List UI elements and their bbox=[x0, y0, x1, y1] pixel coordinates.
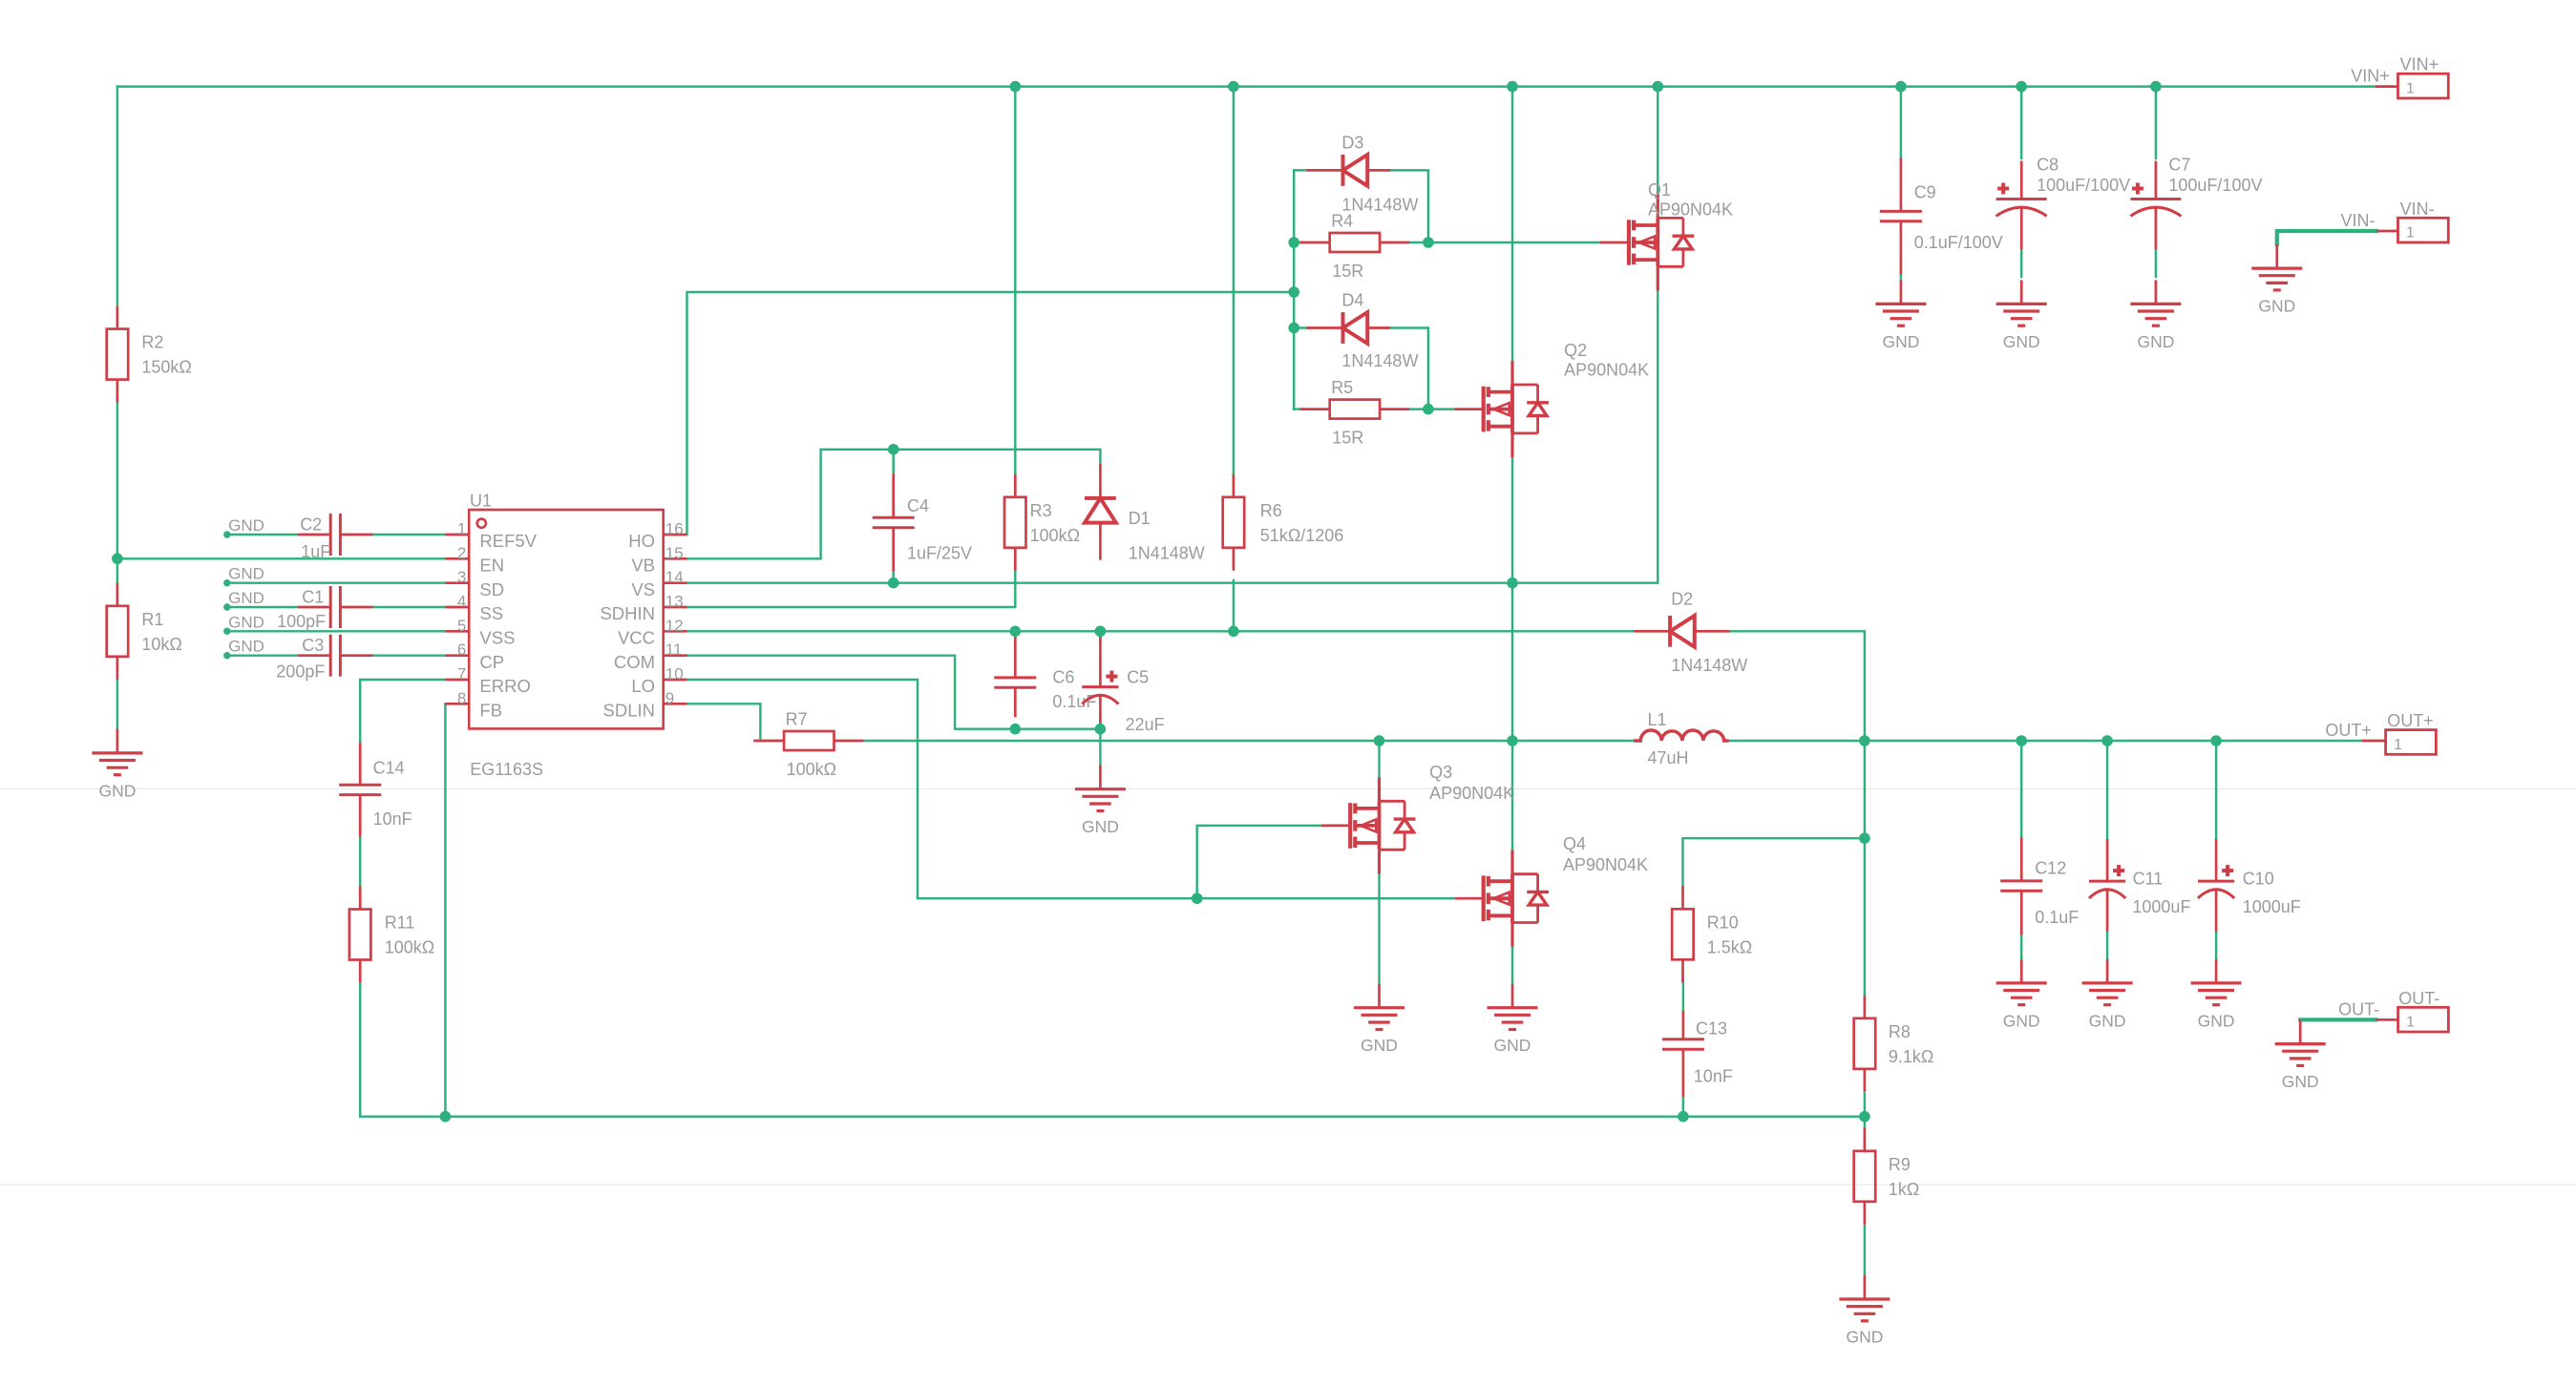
svg-text:GND: GND bbox=[98, 781, 136, 800]
wire D3 D4 left rail bbox=[1293, 170, 1295, 409]
capacitor C12 bbox=[2000, 837, 2042, 934]
svg-text:VCC: VCC bbox=[618, 628, 655, 648]
wire C14 to R11 bbox=[359, 837, 361, 888]
wire VIN- wire bbox=[2277, 231, 2376, 244]
wire R6 top drop bbox=[1233, 87, 1235, 475]
wire C1 to pin4 bbox=[373, 606, 446, 608]
U1 pin 2 (EN) bbox=[445, 557, 469, 560]
wire C9 stem bbox=[1900, 87, 1902, 158]
svg-text:C14: C14 bbox=[373, 759, 405, 778]
junction COM C5 bbox=[1095, 724, 1107, 735]
svg-text:VIN-: VIN- bbox=[2400, 199, 2435, 219]
wire HO route bbox=[687, 292, 1295, 535]
svg-text:1: 1 bbox=[2406, 225, 2415, 241]
svg-text:1000uF: 1000uF bbox=[2132, 897, 2190, 916]
capacitor C9 bbox=[1880, 157, 1922, 274]
svg-text:GND: GND bbox=[2198, 1011, 2235, 1030]
junction OUT+ C11 bbox=[2101, 735, 2113, 746]
ground GND below OUT- bbox=[2275, 1020, 2326, 1066]
svg-text:C12: C12 bbox=[2035, 858, 2066, 877]
svg-text:OUT-: OUT- bbox=[2398, 989, 2439, 1008]
svg-text:1N4148W: 1N4148W bbox=[1341, 196, 1418, 215]
wire OUT- wire bbox=[2300, 1018, 2375, 1021]
junction VCC C6 bbox=[1010, 626, 1022, 638]
wire R10 top link bbox=[1683, 838, 1865, 888]
svg-text:GND: GND bbox=[2258, 297, 2295, 316]
wire Q3 drain drop bbox=[1378, 741, 1380, 777]
svg-text:GND: GND bbox=[1882, 332, 1919, 351]
svg-text:GND: GND bbox=[2137, 332, 2174, 351]
svg-text:Q3: Q3 bbox=[1429, 763, 1452, 782]
svg-text:REF5V: REF5V bbox=[479, 531, 537, 551]
capacitor C2 bbox=[298, 514, 372, 556]
svg-text:GND: GND bbox=[228, 565, 264, 583]
junction FB rail bbox=[440, 1111, 452, 1123]
svg-text:4: 4 bbox=[457, 593, 466, 611]
U1 pin 7 (ERRO) bbox=[445, 679, 469, 682]
junction OUT+ D2 bbox=[1859, 735, 1870, 746]
svg-text:0.1uF: 0.1uF bbox=[2035, 908, 2079, 927]
svg-text:C3: C3 bbox=[302, 636, 324, 655]
svg-text:GND: GND bbox=[2003, 1011, 2040, 1030]
capacitor C6 bbox=[994, 631, 1036, 717]
svg-text:GND: GND bbox=[1361, 1036, 1398, 1055]
U1 pin 4 (SS) bbox=[445, 606, 469, 609]
wire end dot GND row 2 bbox=[223, 579, 230, 586]
wire FB drop bbox=[444, 703, 446, 1116]
wire D4 to R5 node bbox=[1390, 328, 1428, 409]
capacitor C3 bbox=[298, 635, 372, 677]
svg-text:D3: D3 bbox=[1341, 134, 1363, 153]
svg-text:11: 11 bbox=[665, 640, 683, 659]
svg-text:OUT+: OUT+ bbox=[2387, 711, 2434, 730]
svg-text:GND: GND bbox=[2003, 332, 2040, 351]
svg-text:C7: C7 bbox=[2168, 155, 2190, 174]
wire GND stub to pin5 bbox=[227, 630, 446, 632]
capacitor C8 bbox=[1996, 161, 2047, 250]
wire C7 gnd link bbox=[2155, 250, 2157, 277]
svg-text:GND: GND bbox=[2282, 1072, 2319, 1091]
svg-text:1.5kΩ: 1.5kΩ bbox=[1707, 937, 1752, 956]
svg-text:R9: R9 bbox=[1889, 1155, 1911, 1174]
resistor R9 bbox=[1854, 1128, 1876, 1225]
wire C5 gnd stem bbox=[1099, 729, 1101, 766]
wire R8 R9 link bbox=[1864, 1093, 1866, 1151]
wire Q4 source to GND bbox=[1511, 947, 1513, 985]
svg-text:R8: R8 bbox=[1889, 1022, 1911, 1041]
svg-text:100uF/100V: 100uF/100V bbox=[2168, 176, 2262, 195]
svg-text:VIN+: VIN+ bbox=[2400, 55, 2439, 74]
svg-text:C2: C2 bbox=[300, 515, 322, 535]
svg-text:14: 14 bbox=[665, 568, 684, 586]
wire GND stub to pin3 bbox=[227, 581, 446, 583]
svg-text:10nF: 10nF bbox=[373, 809, 412, 829]
wire VCC row bbox=[687, 630, 1635, 632]
junction HO rail bbox=[1288, 286, 1299, 298]
inductor L1 bbox=[1634, 730, 1729, 741]
ground GND below R9 bbox=[1839, 1275, 1890, 1321]
svg-text:GND: GND bbox=[228, 613, 264, 631]
svg-text:GND: GND bbox=[228, 638, 264, 656]
svg-text:15R: 15R bbox=[1332, 262, 1363, 281]
wire GND stub to C3 bbox=[227, 654, 298, 656]
svg-text:1: 1 bbox=[2406, 1015, 2415, 1031]
wire C11 stem bbox=[2106, 741, 2108, 839]
svg-text:10nF: 10nF bbox=[1694, 1066, 1733, 1085]
svg-text:C9: C9 bbox=[1914, 183, 1936, 202]
ground GND below C7 bbox=[2130, 280, 2181, 325]
page separator line 2 bbox=[0, 1184, 2576, 1186]
port OUT+ bbox=[2362, 740, 2386, 743]
svg-text:Q4: Q4 bbox=[1563, 834, 1586, 853]
wire C8 gnd link bbox=[2020, 250, 2022, 277]
wire VIN+ rail bbox=[117, 85, 2375, 87]
svg-text:6: 6 bbox=[457, 640, 466, 659]
svg-text:C13: C13 bbox=[1696, 1018, 1727, 1038]
svg-text:1: 1 bbox=[2406, 80, 2415, 96]
wire R5 to Q2 gate bbox=[1409, 408, 1455, 409]
junction VCC D1 C5 bbox=[1095, 626, 1107, 638]
junction gate split bbox=[1192, 892, 1203, 904]
transistor Q3 bbox=[1321, 777, 1379, 873]
svg-text:C1: C1 bbox=[302, 587, 324, 606]
transistor Q4 bbox=[1455, 850, 1512, 947]
junction switch Q4 bbox=[1507, 735, 1518, 746]
wire R3 top drop bbox=[1014, 87, 1016, 475]
svg-text:200pF: 200pF bbox=[276, 661, 325, 681]
svg-text:EN: EN bbox=[479, 556, 504, 576]
wire end dot GND row 1 bbox=[223, 531, 230, 537]
wire Q1 drain drop bbox=[1657, 87, 1658, 195]
wire C2 to pin1 bbox=[373, 534, 446, 535]
wire R2 top drop bbox=[116, 87, 118, 305]
capacitor C13 bbox=[1662, 1011, 1704, 1097]
svg-text:0.1uF/100V: 0.1uF/100V bbox=[1914, 233, 2003, 252]
wire R10 C13 link bbox=[1682, 981, 1684, 1011]
svg-text:100kΩ: 100kΩ bbox=[385, 938, 435, 957]
svg-text:R2: R2 bbox=[141, 333, 163, 352]
svg-text:SDLIN: SDLIN bbox=[603, 701, 656, 721]
ground GND below C11 bbox=[2082, 959, 2133, 1005]
svg-text:GND: GND bbox=[1082, 817, 1119, 836]
svg-text:5: 5 bbox=[457, 617, 466, 635]
svg-text:VB: VB bbox=[631, 556, 655, 576]
junction rail R3 bbox=[1010, 81, 1022, 93]
svg-text:R7: R7 bbox=[786, 710, 808, 729]
wire COM route bbox=[687, 656, 1101, 729]
wire C8 stem bbox=[2020, 87, 2022, 158]
U1 pin 15 (VB) bbox=[664, 557, 687, 560]
capacitor C10 bbox=[2198, 839, 2234, 932]
wire D2 to OUT+ node bbox=[1730, 631, 1865, 741]
transistor Q1 bbox=[1600, 195, 1658, 291]
svg-text:10kΩ: 10kΩ bbox=[141, 635, 181, 654]
diode D2 bbox=[1634, 616, 1730, 647]
svg-text:C11: C11 bbox=[2133, 870, 2164, 889]
wire R1 bottom to GND bbox=[116, 681, 118, 729]
svg-text:15: 15 bbox=[665, 544, 684, 562]
wire R9 to GND bbox=[1864, 1224, 1866, 1275]
wire D3 to R4 node bbox=[1390, 170, 1428, 242]
svg-text:Q2: Q2 bbox=[1564, 341, 1587, 360]
resistor R4 bbox=[1300, 233, 1409, 252]
capacitor C4 bbox=[873, 473, 915, 571]
svg-text:SDHIN: SDHIN bbox=[600, 603, 655, 623]
transistor Q2 bbox=[1455, 361, 1512, 457]
svg-text:15R: 15R bbox=[1332, 429, 1363, 448]
svg-text:L1: L1 bbox=[1648, 710, 1667, 729]
wire LO route bbox=[687, 680, 1455, 898]
U1 pin 8 (FB) bbox=[445, 703, 469, 705]
svg-text:R10: R10 bbox=[1707, 913, 1739, 932]
junction rail C9 bbox=[1895, 81, 1907, 93]
svg-text:100uF/100V: 100uF/100V bbox=[2037, 176, 2130, 195]
svg-text:Q1: Q1 bbox=[1648, 180, 1671, 199]
svg-text:1uF: 1uF bbox=[301, 542, 330, 561]
wire C4 top stem bbox=[892, 450, 894, 473]
ground GND below VIN- bbox=[2251, 244, 2302, 290]
svg-text:9.1kΩ: 9.1kΩ bbox=[1889, 1047, 1933, 1066]
capacitor C14 bbox=[339, 743, 381, 836]
wire VS row bbox=[687, 291, 1658, 583]
wire R4 left stub bbox=[1294, 241, 1299, 243]
wire C9 gnd link bbox=[1900, 261, 1902, 282]
capacitor C5 bbox=[1082, 632, 1118, 729]
junction rail Q2 bbox=[1507, 81, 1518, 93]
junction switch Q3 bbox=[1374, 735, 1385, 746]
capacitor C11 bbox=[2089, 839, 2125, 932]
wire ERRO to C14 bbox=[360, 680, 445, 743]
svg-text:LO: LO bbox=[631, 676, 655, 696]
wire R11 to FB rail bbox=[360, 981, 1865, 1117]
junction COM C6 bbox=[1010, 724, 1022, 735]
svg-text:D4: D4 bbox=[1341, 291, 1363, 310]
svg-text:1uF/25V: 1uF/25V bbox=[907, 543, 972, 562]
diode D4 bbox=[1307, 312, 1391, 344]
svg-text:C4: C4 bbox=[907, 496, 929, 515]
capacitor C1 bbox=[298, 586, 372, 628]
svg-text:HO: HO bbox=[628, 531, 655, 551]
port VIN- bbox=[2376, 230, 2398, 233]
svg-text:D2: D2 bbox=[1671, 590, 1693, 609]
U1 pin 16 (HO) bbox=[664, 534, 687, 536]
wire R5 left stub bbox=[1294, 408, 1299, 409]
svg-text:VIN-: VIN- bbox=[2341, 211, 2375, 230]
wire EN to U1 pin2 bbox=[117, 557, 446, 559]
page separator line 1 bbox=[0, 787, 2576, 789]
svg-text:1: 1 bbox=[457, 520, 466, 538]
wire D3 left stub bbox=[1294, 169, 1306, 171]
wire Q3 source to GND bbox=[1378, 874, 1380, 985]
svg-text:1: 1 bbox=[2394, 737, 2402, 753]
wire R7 to switch node bbox=[863, 740, 1634, 742]
svg-text:12: 12 bbox=[665, 617, 684, 635]
svg-text:VIN+: VIN+ bbox=[2351, 67, 2390, 86]
port OUT- bbox=[2376, 1018, 2398, 1021]
junction R4 rail bbox=[1288, 237, 1299, 248]
wire C12 stem bbox=[2020, 741, 2022, 837]
svg-text:100kΩ: 100kΩ bbox=[1030, 526, 1081, 545]
svg-text:1N4148W: 1N4148W bbox=[1341, 351, 1418, 370]
svg-text:8: 8 bbox=[457, 689, 466, 707]
svg-text:COM: COM bbox=[614, 652, 655, 672]
svg-text:0.1uF: 0.1uF bbox=[1052, 692, 1096, 711]
svg-text:OUT-: OUT- bbox=[2338, 999, 2379, 1018]
U1 pin 10 (LO) bbox=[664, 679, 687, 682]
U1 pin 14 (VS) bbox=[664, 581, 687, 584]
junction VS C4 bbox=[888, 577, 899, 589]
svg-text:GND: GND bbox=[1494, 1036, 1531, 1055]
wire OUT+ to R10 rail bbox=[1864, 741, 1866, 998]
svg-text:51kΩ/1206: 51kΩ/1206 bbox=[1260, 526, 1344, 545]
junction rail R6 bbox=[1228, 81, 1239, 93]
ground GND below C10 bbox=[2191, 959, 2242, 1005]
svg-text:7: 7 bbox=[457, 665, 466, 683]
svg-text:1N4148W: 1N4148W bbox=[1129, 543, 1205, 562]
svg-text:GND: GND bbox=[1846, 1328, 1883, 1347]
wire C10 stem bbox=[2215, 741, 2217, 839]
svg-text:EG1163S: EG1163S bbox=[470, 760, 543, 779]
ground GND below Q4 bbox=[1488, 984, 1538, 1030]
wire R2 to R1 / EN node bbox=[116, 399, 118, 585]
wire C4 bottom stem bbox=[892, 572, 894, 583]
junction D4 rail bbox=[1288, 323, 1299, 334]
junction OUT+ C12 bbox=[2016, 735, 2027, 746]
svg-text:2: 2 bbox=[457, 544, 466, 562]
svg-text:VSS: VSS bbox=[479, 628, 515, 648]
wire C11 gnd link bbox=[2106, 932, 2108, 958]
svg-text:GND: GND bbox=[2089, 1011, 2126, 1030]
resistor R7 bbox=[754, 731, 863, 750]
svg-text:C10: C10 bbox=[2243, 870, 2274, 889]
ground GND below C8 bbox=[1996, 280, 2047, 325]
svg-text:R5: R5 bbox=[1331, 378, 1353, 397]
svg-text:ERRO: ERRO bbox=[479, 676, 530, 696]
svg-text:R4: R4 bbox=[1331, 212, 1353, 231]
svg-text:R1: R1 bbox=[141, 610, 163, 629]
wire end dot GND row 5 bbox=[223, 652, 230, 659]
svg-text:AP90N04K: AP90N04K bbox=[1564, 361, 1649, 380]
resistor R6 bbox=[1223, 474, 1245, 571]
ground GND below Q3 bbox=[1354, 984, 1404, 1030]
svg-text:9: 9 bbox=[665, 689, 674, 707]
svg-text:100pF: 100pF bbox=[277, 612, 326, 631]
svg-text:SD: SD bbox=[479, 579, 504, 599]
wire Q3 gate branch bbox=[1197, 826, 1322, 898]
junction D4 R5 bbox=[1423, 404, 1434, 415]
U1 pin1 marker circle bbox=[477, 519, 486, 528]
junction rail C8 bbox=[2016, 81, 2027, 93]
resistor R5 bbox=[1300, 400, 1409, 419]
junction D3 R4 bbox=[1423, 237, 1434, 248]
junction R10 rail bbox=[1859, 832, 1870, 844]
U1 pin 6 (CP) bbox=[445, 654, 469, 657]
wire C3 to pin6 bbox=[373, 654, 446, 656]
ground GND below C12 bbox=[1996, 959, 2047, 1005]
wire end dot GND row 3 bbox=[223, 603, 230, 610]
resistor R11 bbox=[349, 887, 371, 983]
port VIN+ bbox=[2375, 85, 2398, 88]
svg-text:OUT+: OUT+ bbox=[2325, 721, 2372, 740]
U1 pin 1 (REF5V) bbox=[445, 534, 469, 536]
ground GND below C9 bbox=[1875, 280, 1926, 325]
wire SDLIN to R7 bbox=[687, 703, 761, 741]
svg-text:13: 13 bbox=[665, 593, 684, 611]
svg-text:R6: R6 bbox=[1260, 501, 1282, 520]
svg-text:CP: CP bbox=[479, 652, 504, 672]
resistor R3 bbox=[1004, 474, 1026, 571]
svg-text:U1: U1 bbox=[470, 492, 492, 511]
diode D1 bbox=[1085, 464, 1116, 560]
wire GND stub to C1 bbox=[227, 606, 298, 608]
U1 pin 9 (SDLIN) bbox=[664, 703, 687, 705]
junction rail Q1 bbox=[1653, 81, 1664, 93]
wire R4 to Q1 gate bbox=[1409, 241, 1600, 243]
wire R6 bottom link bbox=[1233, 580, 1235, 631]
wire SDHIN route bbox=[687, 570, 1016, 608]
svg-text:GND: GND bbox=[228, 589, 264, 607]
wire D4 left stub bbox=[1294, 326, 1306, 328]
svg-text:GND: GND bbox=[228, 516, 264, 535]
svg-text:1000uF: 1000uF bbox=[2243, 897, 2301, 916]
U1 pin 11 (COM) bbox=[664, 654, 687, 657]
U1 pin 3 (SD) bbox=[445, 581, 469, 584]
junction VCC R6 bbox=[1228, 626, 1239, 638]
junction OUT+ C10 bbox=[2210, 735, 2222, 746]
resistor R2 bbox=[107, 306, 129, 403]
wire VB route bbox=[687, 450, 1101, 559]
svg-text:AP90N04K: AP90N04K bbox=[1563, 855, 1648, 874]
svg-text:150kΩ: 150kΩ bbox=[141, 358, 192, 377]
junction VB C4 bbox=[888, 444, 899, 455]
junction C13 rail bbox=[1678, 1111, 1689, 1123]
svg-text:3: 3 bbox=[457, 568, 466, 586]
svg-text:AP90N04K: AP90N04K bbox=[1648, 199, 1733, 219]
wire end dot GND row 4 bbox=[223, 628, 230, 635]
wire switch node vertical bbox=[1511, 457, 1513, 850]
wire C7 stem bbox=[2155, 87, 2157, 158]
svg-text:47uH: 47uH bbox=[1648, 748, 1689, 767]
svg-text:C8: C8 bbox=[2037, 155, 2059, 174]
junction rail C7 bbox=[2150, 81, 2162, 93]
svg-text:VS: VS bbox=[631, 579, 655, 599]
svg-text:C5: C5 bbox=[1127, 668, 1149, 687]
junction VS switch bbox=[1507, 577, 1518, 589]
U1 pin 5 (VSS) bbox=[445, 630, 469, 633]
resistor R8 bbox=[1854, 996, 1876, 1092]
ground GND below R1 bbox=[92, 729, 142, 775]
resistor R1 bbox=[107, 583, 129, 680]
wire L1 to OUT+ bbox=[1729, 740, 2362, 742]
ground GND below C5 bbox=[1075, 766, 1126, 811]
svg-text:D1: D1 bbox=[1129, 509, 1151, 528]
capacitor C7 bbox=[2130, 161, 2181, 250]
wire C12 gnd link bbox=[2020, 934, 2022, 960]
svg-text:FB: FB bbox=[479, 701, 502, 721]
svg-text:10: 10 bbox=[665, 665, 684, 683]
svg-text:100kΩ: 100kΩ bbox=[787, 760, 837, 779]
IC U1 EG1163S body bbox=[469, 510, 664, 728]
svg-text:SS: SS bbox=[479, 603, 503, 623]
wire Q2 drain drop bbox=[1511, 87, 1513, 364]
U1 pin 12 (VCC) bbox=[664, 630, 687, 633]
svg-text:22uF: 22uF bbox=[1126, 715, 1165, 734]
wire C10 gnd link bbox=[2215, 932, 2217, 958]
svg-text:AP90N04K: AP90N04K bbox=[1429, 784, 1514, 803]
diode D3 bbox=[1307, 155, 1391, 186]
svg-text:R11: R11 bbox=[385, 913, 415, 933]
resistor R10 bbox=[1672, 886, 1694, 982]
